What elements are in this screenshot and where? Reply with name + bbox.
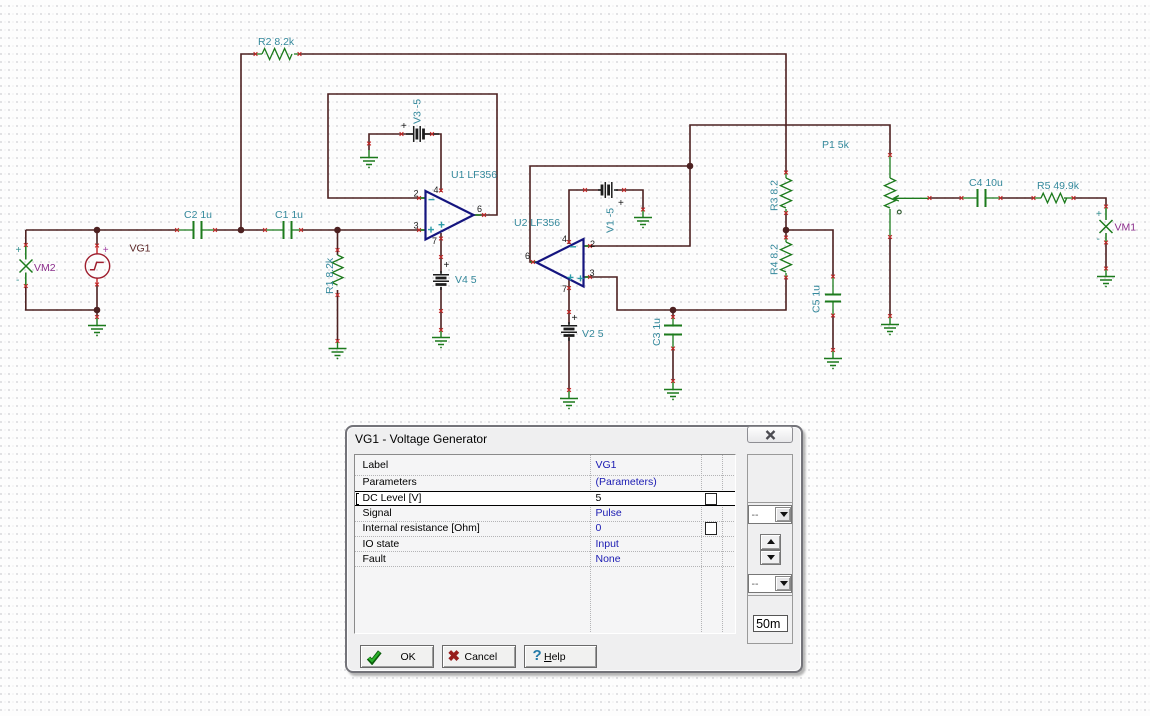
svg-text:V3 -5: V3 -5	[412, 99, 424, 124]
svg-text:U2 LF356: U2 LF356	[514, 217, 560, 229]
ground under V2	[560, 391, 578, 409]
svg-text:2: 2	[590, 239, 595, 249]
op-amp U2	[537, 239, 584, 287]
label U1	[451, 169, 497, 181]
spinner	[760, 534, 781, 566]
svg-text:+: +	[103, 245, 109, 256]
property table	[354, 454, 736, 634]
svg-text:7: 7	[562, 284, 567, 294]
label U2	[514, 217, 560, 229]
label V2	[582, 328, 604, 340]
ground under V1	[634, 210, 652, 228]
ground under VG1	[88, 318, 106, 336]
wire V4 leads	[440, 233, 442, 330]
voltage generator VG1	[85, 247, 109, 285]
battery plus marks	[401, 121, 624, 324]
label R5	[1037, 180, 1080, 192]
svg-text:6: 6	[525, 251, 530, 261]
svg-text:C5 1u: C5 1u	[811, 285, 823, 313]
wire P1 bottom	[889, 238, 891, 316]
battery V4	[433, 271, 449, 290]
P1 wiper o	[897, 210, 901, 214]
ground under VM1	[1097, 269, 1115, 287]
svg-text:+: +	[572, 313, 578, 324]
svg-text:V4 5: V4 5	[455, 274, 477, 286]
label P1	[822, 139, 850, 151]
Cancel button	[442, 645, 517, 668]
label R2	[258, 36, 295, 48]
svg-text:7: 7	[432, 236, 437, 246]
ground under R1	[329, 341, 347, 359]
selected row	[355, 491, 735, 506]
wire VM2 loop	[26, 230, 97, 310]
svg-text:U1 LF356: U1 LF356	[451, 169, 497, 181]
resistor R3	[781, 172, 792, 213]
label V3	[412, 99, 424, 124]
polarity marks	[16, 209, 1103, 286]
svg-text:C3 1u: C3 1u	[651, 318, 663, 346]
ground under V4	[432, 330, 450, 348]
svg-text:+: +	[618, 198, 624, 209]
voltmeter VM2	[20, 246, 33, 287]
label C3	[651, 318, 663, 346]
svg-text:P1 5k: P1 5k	[822, 139, 850, 151]
row labels	[362, 459, 388, 471]
svg-text:VM1: VM1	[1115, 222, 1137, 234]
potentiometer P1	[885, 156, 930, 236]
wire R2 feedback riser and top run	[241, 54, 786, 230]
wire U1 feedback box	[328, 94, 497, 215]
wire C5 branch	[786, 230, 833, 350]
label V1	[605, 208, 617, 233]
red pin connection marks	[24, 52, 1108, 392]
svg-text:3: 3	[414, 221, 419, 231]
resistor R2	[256, 49, 300, 60]
capacitor C5	[825, 277, 841, 315]
svg-text:C1 1u: C1 1u	[275, 209, 303, 221]
svg-text:+: +	[1096, 209, 1102, 220]
VG1 plus	[103, 245, 109, 256]
wire V1 leads and U2 pin4	[569, 190, 643, 244]
voltmeter VM1	[1100, 207, 1113, 242]
combo 2	[748, 574, 792, 593]
capacitor C1	[265, 221, 301, 239]
ground under C3	[664, 382, 682, 400]
close button	[747, 426, 793, 443]
ground under P1	[881, 317, 899, 335]
op-amp U1	[426, 191, 474, 240]
resistor R4	[781, 238, 792, 278]
svg-text:C2 1u: C2 1u	[184, 209, 212, 221]
U2 pin numbers	[525, 234, 595, 294]
svg-text:+: +	[401, 121, 407, 132]
wire main input line	[26, 229, 425, 231]
svg-text:4: 4	[434, 185, 439, 195]
wire V2 leads and U2 pin7	[568, 280, 570, 390]
svg-text:R4 8.2: R4 8.2	[769, 244, 781, 275]
label C4	[969, 177, 1003, 189]
label R4	[769, 244, 781, 275]
ground under V3	[360, 150, 378, 168]
resistor R1	[332, 230, 343, 340]
50m field	[753, 615, 788, 633]
label C1	[275, 209, 303, 221]
VG1 Voltage Generator dialog	[345, 425, 803, 673]
wire U2 output branch	[530, 166, 690, 262]
svg-text:R2 8.2k: R2 8.2k	[258, 36, 295, 48]
svg-text:6: 6	[477, 204, 482, 214]
svg-text:R5 49.9k: R5 49.9k	[1037, 180, 1080, 192]
svg-text:V2 5: V2 5	[582, 328, 604, 340]
label C5	[811, 285, 823, 313]
wire V3 leads	[369, 134, 441, 192]
wire C3 branch	[672, 310, 674, 381]
label VM2	[34, 262, 56, 274]
battery V1	[598, 182, 618, 198]
OK button	[360, 645, 435, 668]
label VG1	[130, 243, 151, 255]
svg-text:VG1: VG1	[130, 243, 151, 255]
capacitor C4	[962, 189, 1000, 207]
battery V2	[561, 322, 577, 341]
battery V3	[406, 126, 439, 142]
wire U2 inverting net to P1 top	[584, 125, 890, 246]
row values	[595, 459, 616, 471]
U1 pin numbers	[414, 185, 483, 246]
label V4	[455, 274, 477, 286]
svg-text:3: 3	[590, 268, 595, 278]
right control panel	[747, 454, 793, 644]
ground under C5	[824, 351, 842, 369]
label R1	[324, 257, 336, 294]
junction node dots	[94, 163, 790, 314]
svg-text:VM2: VM2	[34, 262, 56, 274]
svg-text:+: +	[444, 260, 450, 271]
combo 1	[748, 505, 792, 524]
label VM1	[1115, 222, 1137, 234]
Help button	[524, 645, 597, 668]
wire R3 R4 column to lower run	[584, 213, 786, 310]
label C2	[184, 209, 212, 221]
op-amp U1 pin stubs	[419, 198, 481, 230]
svg-text:4: 4	[562, 234, 567, 244]
checkboxes	[705, 493, 717, 505]
svg-text:C4 10u: C4 10u	[969, 177, 1003, 189]
svg-text:R1 8.2k: R1 8.2k	[324, 257, 336, 294]
svg-text:2: 2	[414, 189, 419, 199]
svg-text:-: -	[16, 275, 19, 286]
label R3	[769, 180, 781, 211]
svg-text:V1 -5: V1 -5	[605, 208, 617, 233]
capacitor C2	[177, 221, 215, 239]
resistor R5	[1034, 193, 1073, 203]
wire P1 wiper to VM1	[930, 198, 1106, 268]
svg-text:+: +	[16, 245, 22, 256]
op-amp U2 pin stubs	[531, 246, 591, 277]
capacitor C3	[664, 317, 682, 348]
svg-text:-: -	[1097, 234, 1100, 245]
wire VG1 stubs	[96, 230, 98, 316]
svg-text:R3 8.2: R3 8.2	[769, 180, 781, 211]
